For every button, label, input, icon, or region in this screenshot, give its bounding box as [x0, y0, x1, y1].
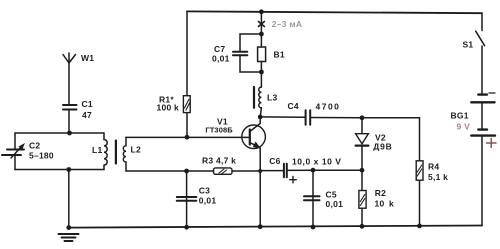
switch S1 [476, 31, 485, 94]
svg-text:Д9В: Д9В [373, 141, 392, 151]
svg-text:C1: C1 [82, 99, 93, 109]
resistor R3 [214, 168, 233, 174]
svg-text:R4: R4 [428, 161, 439, 171]
node [67, 131, 72, 136]
core of L3 [253, 87, 255, 108]
wire bottom rail [69, 226, 482, 228]
node [360, 168, 365, 173]
capacitor C2 variable [2, 150, 24, 156]
svg-text:5,1 k: 5,1 k [428, 172, 448, 182]
wire battery branch top [481, 13, 483, 30]
wire R3 right [232, 170, 260, 172]
wire tank box top [15, 132, 104, 134]
svg-text:W1: W1 [81, 53, 94, 63]
antenna W1 [63, 53, 76, 63]
node [311, 168, 316, 173]
svg-text:10 k: 10 k [375, 198, 394, 208]
wire [68, 63, 70, 105]
svg-text:L2: L2 [131, 144, 141, 154]
svg-text:B1: B1 [274, 50, 285, 60]
svg-text:C5: C5 [326, 189, 337, 199]
emitter line and resistor chain: wire [259, 171, 261, 227]
battery BG1 [471, 95, 495, 136]
svg-text:C3: C3 [199, 186, 210, 196]
capacitor C6 [284, 164, 287, 178]
svg-text:С6: С6 [269, 156, 280, 166]
svg-text:C7: C7 [214, 44, 225, 54]
node [185, 135, 190, 140]
ground [59, 234, 79, 241]
svg-text:L1: L1 [92, 145, 102, 155]
wire to R4 branch [362, 118, 420, 161]
wire tank box bottom [15, 169, 104, 171]
wire emitter to C6 [260, 170, 284, 172]
minus sign of BG1 [489, 92, 495, 94]
wire tank box left upper [14, 133, 16, 149]
capacitor C7 [233, 52, 247, 56]
svg-text:C2: C2 [29, 141, 40, 151]
resistor R4 [416, 161, 423, 226]
wire L3 top [260, 72, 262, 87]
plus sign of BG1 [487, 139, 497, 148]
wire after C4 [310, 117, 362, 119]
wire B1 top [260, 34, 262, 47]
wire C3 drop [186, 171, 188, 227]
plus sign of C6 [290, 177, 296, 183]
svg-text:2–3 мА: 2–3 мА [272, 19, 302, 29]
resistor R2 [359, 170, 366, 226]
wire base rail [126, 136, 242, 138]
node [259, 70, 264, 75]
wire tank box left lower [14, 156, 16, 170]
core of transformer [115, 141, 117, 164]
svg-text:R2: R2 [375, 188, 386, 198]
wire battery to rail [481, 136, 483, 226]
svg-text:0,01: 0,01 [326, 199, 344, 209]
wire L3 bottom [260, 108, 261, 117]
wire ground drop [68, 170, 70, 228]
node [66, 225, 71, 230]
capacitor C3 [177, 197, 197, 201]
node [258, 169, 262, 173]
node [258, 115, 263, 120]
node [259, 9, 264, 14]
wire to V2 node [313, 169, 362, 171]
wire collector line [260, 116, 305, 118]
inductor L2 [123, 137, 126, 171]
svg-text:5–180: 5–180 [29, 151, 54, 161]
svg-text:47: 47 [82, 110, 92, 120]
svg-text:BG1: BG1 [451, 111, 469, 121]
node [311, 225, 316, 230]
transistor V1 [242, 117, 266, 171]
wire C7 top stub [240, 34, 261, 51]
svg-text:L3: L3 [267, 93, 277, 103]
svg-text:R3 4,7 k: R3 4,7 k [202, 156, 236, 166]
capacitor C1 [63, 105, 77, 110]
wire R1 branch top [186, 11, 188, 137]
svg-text:4700: 4700 [316, 101, 341, 111]
svg-text:ГТ308Б: ГТ308Б [205, 125, 233, 134]
diode V2 [356, 118, 369, 170]
current break mark [258, 22, 264, 27]
wire [68, 110, 70, 134]
inductor L1 [104, 133, 107, 170]
svg-text:100 k: 100 k [157, 103, 180, 113]
capacitor C4 [306, 110, 311, 125]
node [360, 115, 365, 120]
node [184, 225, 189, 230]
svg-text:9 V: 9 V [457, 122, 471, 132]
svg-text:0,01: 0,01 [212, 54, 230, 64]
headphone B1 [258, 47, 266, 62]
svg-text:C4: C4 [288, 101, 299, 111]
capacitor C5 [304, 196, 320, 200]
resistor R1 [183, 96, 190, 113]
wire C5 drop [312, 170, 314, 227]
wire C6 to node [287, 169, 313, 171]
svg-text:0,01: 0,01 [199, 195, 217, 205]
node [184, 169, 189, 174]
node [259, 32, 264, 37]
svg-text:10,0 х 10 V: 10,0 х 10 V [292, 157, 342, 167]
wire top rail [187, 11, 482, 13]
wire spine upper [260, 12, 262, 34]
wire L2 bottom rail [126, 170, 214, 172]
arrow of C2 [11, 143, 25, 158]
svg-text:S1: S1 [463, 40, 474, 50]
node [360, 224, 365, 229]
wire B1 bottom [260, 62, 262, 73]
node [417, 224, 422, 229]
node [66, 167, 71, 172]
wire C7 bottom stub [240, 55, 261, 72]
node [258, 224, 263, 229]
inductor L3 [259, 87, 262, 108]
